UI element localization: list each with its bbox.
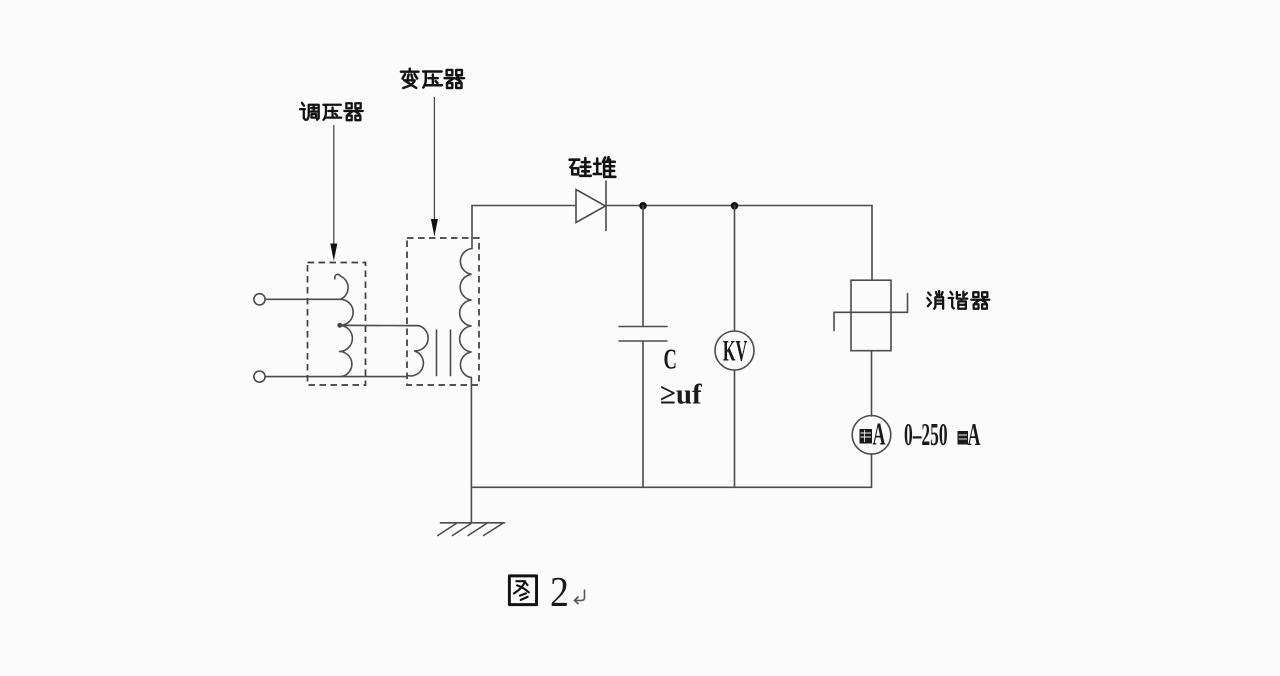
junction node at voltmeter branch xyxy=(731,202,739,210)
wire: T1 tap to T2 primary xyxy=(340,324,419,326)
capacitor C top plate xyxy=(619,326,667,328)
leader arrow to 调压器 xyxy=(333,125,335,244)
caption 图 2 xyxy=(509,576,536,605)
arrester gap line xyxy=(834,294,908,331)
tap junction dot on T1 xyxy=(337,323,342,328)
label 变压器 (transformer) xyxy=(401,69,419,88)
wire: diode cathode to right corner xyxy=(606,205,872,207)
pilcrow return mark xyxy=(575,590,585,605)
label 消谐器 (harmonic eliminator) xyxy=(927,291,943,309)
svg-text:C: C xyxy=(664,343,677,375)
capacitor C bottom plate xyxy=(619,340,667,342)
mA meter face text xyxy=(860,429,873,444)
wire: top bus to diode anode xyxy=(472,205,576,207)
wire: top terminal to regulator winding xyxy=(265,298,340,300)
diode D1 (硅堆) xyxy=(576,190,606,223)
diode D1 cathode bar xyxy=(605,181,607,231)
wire: node down to voltmeter xyxy=(734,206,736,332)
transformer T2 primary winding xyxy=(407,326,428,376)
transformer T2 core xyxy=(436,330,438,376)
terminal input bottom xyxy=(254,371,265,382)
svg-text:A: A xyxy=(872,416,885,452)
label 硅堆 (silicon rectifier stack) xyxy=(570,158,591,176)
wire: secondary top lead up to bus xyxy=(471,206,473,249)
wire: milliammeter to bottom bus xyxy=(871,454,873,487)
label 调压器 (voltage regulator) xyxy=(300,103,319,120)
transformer T2 secondary winding xyxy=(460,249,472,378)
junction node at capacitor branch xyxy=(639,202,647,210)
wire: voltmeter to bottom bus xyxy=(734,370,736,487)
wire: arrester to milliammeter xyxy=(871,351,873,416)
arrester (消谐器) box xyxy=(851,280,891,351)
svg-text:0–250: 0–250 xyxy=(904,416,948,452)
wire: node down to capacitor xyxy=(642,206,644,327)
leader arrow to 变压器 xyxy=(433,97,435,219)
bottom bus wire xyxy=(471,486,871,488)
svg-text:≥uf: ≥uf xyxy=(660,379,702,411)
svg-text:KV: KV xyxy=(723,336,747,368)
dashed box: regulator T1 xyxy=(308,263,366,386)
ground symbol xyxy=(441,522,505,524)
svg-text:2: 2 xyxy=(550,568,569,615)
dashed box: transformer T2 xyxy=(407,238,479,385)
wire: secondary bottom lead down to ground xyxy=(470,378,472,523)
regulator T1 winding xyxy=(335,274,353,376)
terminal input top xyxy=(254,294,265,305)
voltmeter KV xyxy=(715,331,754,370)
milliammeter mA xyxy=(852,416,891,455)
svg-text:A: A xyxy=(968,417,981,453)
wire: capacitor to bottom bus xyxy=(642,341,644,487)
wire: top bus right corner down to arrester xyxy=(871,206,873,281)
wire: bottom terminal through to transformer primary xyxy=(265,376,407,378)
